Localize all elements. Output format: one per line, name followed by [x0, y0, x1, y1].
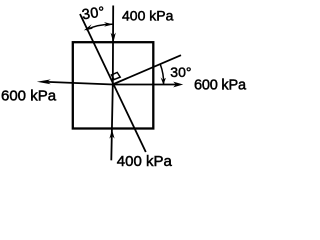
arc arrowhead bottom (at horizontal line) — [161, 77, 166, 85]
svg-text:600 kPa: 600 kPa — [1, 88, 57, 105]
svg-text:400 kPa: 400 kPa — [122, 7, 174, 23]
svg-text:600 kPa: 600 kPa — [194, 78, 247, 94]
svg-text:30°: 30° — [170, 64, 191, 80]
stress element square — [73, 42, 154, 128]
arc arrowhead right (at vertical line) — [104, 22, 113, 27]
svg-text:400 kPa: 400 kPa — [117, 153, 173, 170]
vertical axis wire (400 kPa line) — [111, 6, 113, 161]
left arrowhead 600 kPa — [37, 79, 51, 84]
normal direction ray (shallow, 30 deg above horizontal) — [113, 55, 182, 84]
bottom arrowhead 400 kPa (pointing up) — [109, 130, 114, 139]
right-angle marker at center — [111, 72, 120, 79]
inclined plane line (steep, 30 deg from vertical) — [80, 14, 146, 152]
right 30 deg arc — [160, 64, 163, 84]
top 30 deg arc — [86, 24, 113, 30]
svg-text:30°: 30° — [81, 4, 106, 23]
right arrowhead 600 kPa — [173, 82, 183, 88]
arc arrowhead left (at inclined line) — [84, 24, 93, 30]
top arrowhead 400 kPa (pointing down) — [111, 33, 116, 43]
horizontal axis wire (600 kPa line) — [47, 82, 176, 85]
